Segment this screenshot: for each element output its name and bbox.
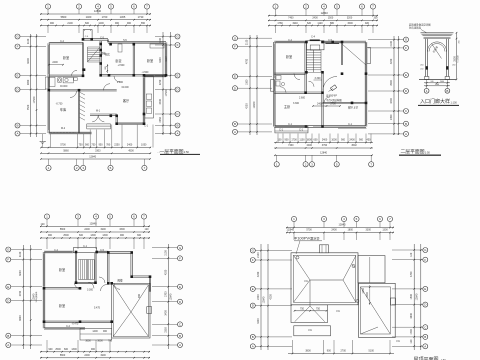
svg-text:3.300: 3.300 [315, 77, 322, 80]
svg-text:A: A [179, 343, 181, 347]
plan 4 bottom flat roof [294, 326, 331, 336]
svg-text:1300: 1300 [102, 234, 108, 237]
svg-text:5.475: 5.475 [94, 307, 101, 310]
svg-text:B: B [446, 89, 448, 93]
svg-text:C-1: C-1 [348, 123, 353, 126]
svg-text:120: 120 [410, 339, 413, 344]
svg-text:落水管: 落水管 [311, 236, 320, 241]
svg-text:4200: 4200 [390, 58, 393, 64]
plan 4 downpipe circles [352, 265, 355, 268]
svg-text:1: 1 [47, 5, 49, 9]
plan 4 chimney [320, 245, 329, 253]
svg-text:2100: 2100 [159, 37, 162, 43]
svg-text:M-2: M-2 [61, 127, 66, 130]
svg-text:D: D [16, 88, 19, 92]
svg-text:平台L见结构图: 平台L见结构图 [326, 98, 342, 102]
svg-text:二层平面图: 二层平面图 [401, 149, 425, 155]
svg-text:C: C [424, 325, 427, 329]
svg-text:1940: 1940 [292, 22, 298, 25]
svg-text:300: 300 [374, 17, 379, 20]
svg-text:780: 780 [106, 144, 111, 147]
svg-text:1500: 1500 [347, 22, 353, 25]
svg-text:12840: 12840 [263, 296, 266, 303]
svg-text:17540: 17540 [165, 89, 168, 96]
plan 1 right annex [145, 76, 154, 118]
plan 2 right dimension lines [393, 36, 395, 135]
svg-text:7540: 7540 [27, 104, 30, 110]
svg-text:3400: 3400 [390, 98, 393, 104]
svg-text:12840: 12840 [339, 224, 347, 227]
svg-text:G: G [179, 246, 182, 250]
svg-text:阁楼: 阁楼 [117, 279, 123, 283]
plan 2 outer walls [273, 42, 275, 127]
svg-text:减:850平P: 减:850平P [326, 93, 337, 97]
svg-text:600: 600 [79, 234, 84, 237]
plan 3 outer walls [42, 252, 44, 328]
svg-text:4700: 4700 [410, 271, 413, 277]
svg-text:2400: 2400 [52, 61, 58, 64]
svg-text:4500: 4500 [128, 150, 134, 153]
plan 1 entry double door [92, 115, 98, 122]
svg-text:3360: 3360 [435, 84, 439, 86]
svg-text:1200: 1200 [98, 22, 104, 25]
svg-text:B: B [252, 335, 254, 339]
svg-text:卧室: 卧室 [147, 58, 153, 63]
svg-text:1900: 1900 [100, 354, 106, 357]
plan 3 left axis bubbles [11, 249, 42, 251]
svg-text:C-2: C-2 [66, 325, 71, 328]
svg-text:4200: 4200 [164, 269, 167, 275]
svg-text:C: C [179, 322, 182, 326]
svg-text:2400: 2400 [312, 17, 318, 20]
svg-text:E: E [16, 74, 18, 78]
svg-text:240: 240 [431, 81, 434, 83]
plan 2 interior walls [304, 42, 306, 93]
svg-text:C: C [405, 109, 408, 113]
plan 1 stair-down hatch [79, 92, 85, 95]
svg-text:250: 250 [420, 65, 423, 67]
svg-text:5: 5 [336, 5, 338, 9]
svg-text:E: E [7, 285, 9, 289]
svg-text:D: D [176, 88, 179, 92]
svg-text:C-4: C-4 [311, 35, 316, 38]
svg-text:A: A [405, 132, 407, 136]
porch detail column bases [425, 77, 429, 80]
plan 3 door arcs [75, 283, 81, 289]
svg-text:120: 120 [145, 228, 150, 231]
svg-text:750: 750 [79, 144, 84, 147]
svg-text:B: B [405, 122, 407, 126]
plan 1 bottom axis bubbles [48, 159, 50, 165]
svg-text:945: 945 [290, 229, 295, 232]
svg-text:G: G [7, 248, 10, 252]
svg-text:D: D [405, 89, 408, 93]
plan 4 main hip roof [291, 253, 358, 305]
plan 2 interior dim [313, 105, 340, 107]
svg-text:1800: 1800 [306, 139, 312, 142]
svg-text:主卧: 主卧 [284, 104, 291, 109]
svg-text:2700: 2700 [159, 79, 162, 85]
svg-text:900: 900 [327, 350, 332, 353]
svg-text:4200: 4200 [159, 57, 162, 63]
svg-text:1: 1 [48, 166, 50, 170]
plan 4 left axis bubbles [255, 250, 292, 252]
svg-text:3303: 3303 [95, 150, 101, 153]
svg-text:700: 700 [108, 340, 113, 343]
svg-text:1800: 1800 [348, 229, 354, 232]
svg-text:h=2.600: h=2.600 [458, 56, 460, 63]
svg-text:900: 900 [285, 139, 290, 142]
plan 2 bottom axis bubbles [276, 155, 278, 161]
svg-text:B: B [176, 124, 178, 128]
svg-text:3300: 3300 [366, 229, 372, 232]
plan 1 bathroom fixtures [49, 77, 55, 86]
plan 4 right chimney box [391, 298, 396, 305]
svg-text:750: 750 [91, 144, 96, 147]
plan 2 section marker [330, 85, 336, 91]
svg-text:2.900: 2.900 [117, 81, 124, 84]
svg-text:3: 3 [323, 217, 325, 221]
svg-text:7460: 7460 [288, 144, 294, 147]
svg-text:2100: 2100 [27, 38, 30, 44]
svg-text:120: 120 [410, 252, 413, 257]
svg-text:C-5: C-5 [328, 39, 333, 42]
svg-text:1: 1 [276, 162, 278, 166]
svg-text:3800: 3800 [305, 350, 311, 353]
svg-text:±0.000: ±0.000 [60, 85, 68, 88]
svg-text:5700: 5700 [60, 144, 66, 147]
svg-text:2460: 2460 [440, 81, 444, 83]
svg-text:5: 5 [110, 5, 112, 9]
svg-text:4: 4 [323, 5, 325, 9]
svg-text:7: 7 [143, 215, 145, 219]
svg-text:900: 900 [103, 330, 108, 333]
svg-text:A: A [7, 343, 9, 347]
svg-text:4700: 4700 [246, 58, 249, 64]
porch detail cornice [421, 32, 454, 34]
plan 3 entry roof below [80, 328, 112, 340]
svg-text:2350: 2350 [159, 116, 162, 122]
porch detail bottom dimensions [424, 82, 450, 84]
svg-text:1900: 1900 [100, 228, 106, 231]
plan 1 left axis bubbles [20, 36, 46, 38]
svg-text:2500: 2500 [55, 348, 61, 351]
svg-text:4: 4 [95, 215, 97, 219]
svg-text:750: 750 [316, 308, 321, 311]
plan 3 axis bubbles top [44, 214, 49, 219]
svg-text:7: 7 [146, 5, 148, 9]
svg-text:4200: 4200 [257, 318, 260, 324]
plan 4 hip dimension [295, 310, 327, 312]
svg-text:B: B [179, 334, 181, 338]
svg-text:8000: 8000 [19, 315, 22, 321]
svg-text:2350: 2350 [390, 114, 393, 120]
svg-text:F: F [252, 258, 254, 262]
svg-text:F: F [405, 46, 407, 50]
porch detail axis bubbles [426, 80, 428, 89]
svg-text:车库: 车库 [60, 107, 67, 112]
svg-text:3: 3 [311, 162, 313, 166]
svg-text:E: E [176, 74, 178, 78]
svg-text:5: 5 [336, 162, 338, 166]
svg-text:2500: 2500 [63, 234, 69, 237]
svg-text:2400: 2400 [317, 103, 323, 106]
svg-text:C-1: C-1 [279, 129, 284, 132]
plan 3 column blocks [75, 251, 78, 254]
svg-text:2: 2 [305, 162, 307, 166]
svg-text:4200: 4200 [257, 271, 260, 277]
plan 3 left dimension lines [22, 245, 24, 349]
svg-text:D: D [7, 299, 10, 303]
svg-text:600: 600 [314, 139, 319, 142]
porch detail arch [427, 42, 446, 52]
plan 4 top dimension lines [286, 227, 394, 229]
svg-text:5860: 5860 [63, 150, 69, 153]
svg-text:1000: 1000 [331, 139, 337, 142]
svg-text:300: 300 [137, 234, 142, 237]
plan 4 top-right flat roof [358, 256, 385, 283]
svg-text:A: A [176, 131, 178, 135]
svg-text:D: D [234, 86, 237, 90]
plan 4 left lower extension [291, 305, 328, 323]
svg-text:3300: 3300 [119, 228, 125, 231]
plan 1 stair treads [88, 46, 101, 48]
svg-text:7460: 7460 [288, 17, 294, 20]
svg-text:2100: 2100 [19, 251, 22, 257]
plan 3 stair treads [77, 260, 79, 280]
svg-text:F: F [424, 258, 426, 262]
svg-text:900: 900 [49, 348, 54, 351]
svg-text:2400: 2400 [322, 139, 328, 142]
svg-text:6: 6 [379, 217, 381, 221]
svg-text:12840: 12840 [94, 9, 102, 13]
svg-text:C-5: C-5 [100, 36, 105, 39]
svg-text:F: F [177, 43, 179, 47]
svg-text:900: 900 [127, 22, 132, 25]
svg-text:12840: 12840 [320, 152, 328, 155]
svg-text:D: D [252, 304, 255, 308]
svg-text:楼梯: 楼梯 [101, 51, 106, 55]
svg-text:E: E [405, 73, 407, 77]
svg-text:1300: 1300 [90, 234, 96, 237]
plan 2 window sill right [338, 127, 367, 129]
porch detail arch slash [432, 44, 442, 59]
plan 2 balcony below [275, 127, 308, 133]
porch detail right dimension [456, 33, 458, 80]
svg-text:17540: 17540 [33, 96, 36, 103]
svg-text:880: 880 [330, 22, 335, 25]
svg-text:1050: 1050 [141, 144, 147, 147]
svg-text:2400: 2400 [349, 139, 355, 142]
svg-text:B: B [424, 335, 426, 339]
svg-text:G: G [234, 36, 237, 40]
svg-text:12840: 12840 [253, 101, 256, 108]
svg-text:4200: 4200 [270, 294, 273, 300]
plan 3 right dimension lines [167, 244, 169, 349]
plan 1 kitchen counter [118, 44, 122, 52]
plan 2 right bay window [367, 48, 371, 64]
plan 2 top dimension lines [268, 15, 378, 17]
svg-text:12840: 12840 [89, 155, 97, 158]
plan 3 right axis bubbles [152, 247, 178, 249]
svg-text:仿石漆饰面: 仿石漆饰面 [409, 26, 422, 30]
svg-text:2100: 2100 [390, 40, 393, 46]
svg-text:600: 600 [64, 348, 69, 351]
svg-text:900: 900 [48, 234, 53, 237]
plan 2 axis bubbles top [273, 4, 278, 9]
svg-text:2: 2 [78, 5, 80, 9]
plan 1 outer walls [47, 43, 49, 133]
plan 1 right dimension lines [162, 32, 164, 135]
plan 3 stair walls [74, 252, 76, 283]
svg-text:450: 450 [367, 139, 372, 142]
svg-text:2900: 2900 [27, 79, 30, 85]
svg-text:客厅上空: 客厅上空 [348, 106, 359, 110]
svg-text:1700: 1700 [410, 329, 413, 335]
svg-text:C-1: C-1 [83, 245, 88, 248]
plan 4 bottom dimension line [292, 340, 294, 354]
svg-text:620: 620 [307, 22, 312, 25]
svg-text:2: 2 [76, 166, 78, 170]
svg-text:G: G [16, 35, 19, 39]
svg-text:B: B [16, 124, 18, 128]
plan 2 large arc [323, 76, 337, 90]
svg-text:A: A [252, 344, 254, 348]
porch detail ground line [419, 79, 456, 81]
svg-text:2100: 2100 [67, 22, 73, 25]
svg-text:2700: 2700 [19, 290, 22, 296]
svg-text:3.300: 3.300 [87, 288, 94, 291]
svg-text:1350: 1350 [362, 288, 365, 294]
svg-text:1500: 1500 [246, 79, 249, 85]
svg-text:4502: 4502 [351, 144, 357, 147]
svg-text:4200: 4200 [246, 103, 249, 109]
svg-text:客厅: 客厅 [123, 98, 130, 103]
plan 3 interior walls [44, 287, 80, 289]
svg-text:F: F [7, 258, 9, 262]
svg-text:6: 6 [133, 215, 135, 219]
svg-text:900: 900 [85, 144, 90, 147]
svg-text:2700: 2700 [330, 103, 336, 106]
svg-text:C-4: C-4 [85, 36, 89, 38]
svg-text:D: D [179, 300, 182, 304]
svg-text:5800: 5800 [61, 15, 67, 19]
svg-text:1100: 1100 [299, 139, 305, 142]
svg-text:2500: 2500 [453, 56, 456, 62]
svg-text:6200: 6200 [27, 58, 30, 64]
svg-text:4: 4 [343, 217, 345, 221]
svg-text:5: 5 [110, 166, 112, 170]
svg-text:900: 900 [91, 348, 96, 351]
plan 1 column blocks [82, 38, 85, 41]
plan 4 lower-right hip roof [359, 283, 396, 337]
svg-text:2400: 2400 [307, 144, 313, 147]
svg-text:卧室: 卧室 [115, 58, 121, 63]
plan 2 bathroom fixtures [276, 76, 281, 80]
svg-text:G: G [424, 248, 427, 252]
svg-text:12840: 12840 [90, 222, 98, 225]
svg-text:7: 7 [370, 162, 372, 166]
plan 2 right axis bubbles [368, 39, 404, 41]
svg-text:-2.500: -2.500 [118, 64, 125, 67]
svg-text:卧室: 卧室 [63, 55, 69, 60]
svg-text:750: 750 [300, 308, 305, 311]
svg-text:2100: 2100 [246, 39, 249, 45]
svg-text:2100: 2100 [164, 250, 167, 256]
svg-text:6: 6 [133, 5, 135, 9]
svg-text:F: F [234, 45, 236, 49]
svg-text:3400: 3400 [159, 98, 162, 104]
svg-text:入口门廊大样: 入口门廊大样 [420, 98, 450, 105]
svg-text:1%: 1% [308, 329, 312, 332]
svg-text:1305: 1305 [120, 15, 126, 19]
svg-text:-0.730: -0.730 [56, 103, 63, 106]
svg-text:G: G [252, 249, 255, 253]
svg-text:3400: 3400 [164, 310, 167, 316]
svg-text:-1.500: -1.500 [142, 71, 149, 74]
svg-text:900: 900 [120, 234, 125, 237]
svg-text:B: B [234, 122, 236, 126]
svg-text:x50: x50 [420, 69, 423, 71]
svg-text:120: 120 [41, 223, 46, 226]
svg-text:卧室: 卧室 [286, 54, 292, 59]
plan 2 column blocks [305, 41, 308, 44]
svg-text:1: 1 [426, 89, 428, 93]
plan 1 window mid-lines [50, 41, 80, 43]
plan 2 roof slope diagonal [342, 44, 366, 65]
svg-text:7: 7 [372, 5, 374, 9]
svg-text:1300: 1300 [382, 229, 388, 232]
svg-text:1500: 1500 [328, 17, 334, 20]
svg-text:7: 7 [389, 217, 391, 221]
plan 4 right axis bubbles [392, 249, 423, 251]
plan 2 left balcony bump [271, 80, 275, 92]
svg-text:7: 7 [144, 166, 146, 170]
plan 1 top dimension lines [40, 13, 151, 15]
plan 3 window mid-lines [45, 251, 72, 253]
svg-text:E: E [424, 287, 426, 291]
svg-text:1:50: 1:50 [184, 150, 190, 154]
plan 4 right dimension lines [413, 244, 415, 350]
svg-text:2700: 2700 [341, 350, 347, 353]
svg-text:1730: 1730 [138, 15, 144, 19]
svg-text:250: 250 [459, 41, 461, 44]
svg-text:900: 900 [138, 293, 141, 298]
svg-text:3200: 3200 [347, 17, 353, 20]
svg-text:2400: 2400 [84, 354, 90, 357]
svg-text:2250: 2250 [114, 144, 120, 147]
svg-text:G: G [176, 35, 179, 39]
svg-text:2400: 2400 [257, 294, 260, 300]
plan 2 left axis bubbles [238, 37, 273, 39]
svg-text:650: 650 [141, 22, 146, 25]
svg-text:1700: 1700 [291, 139, 297, 142]
svg-text:3: 3 [82, 166, 84, 170]
plan 1 interior walls [81, 42, 83, 75]
plan 2 stair treads [306, 49, 321, 51]
svg-text:2100: 2100 [257, 252, 260, 258]
svg-text:D: D [424, 303, 427, 307]
plan 2 door arcs [294, 74, 300, 80]
svg-text:M-1: M-1 [96, 110, 101, 113]
svg-text:5100: 5100 [369, 350, 375, 353]
svg-text:950: 950 [99, 144, 104, 147]
svg-text:900: 900 [105, 66, 107, 69]
svg-text:900: 900 [359, 139, 364, 142]
svg-text:12840: 12840 [170, 293, 173, 300]
svg-text:3: 3 [77, 215, 79, 219]
svg-text:E: E [252, 287, 254, 291]
